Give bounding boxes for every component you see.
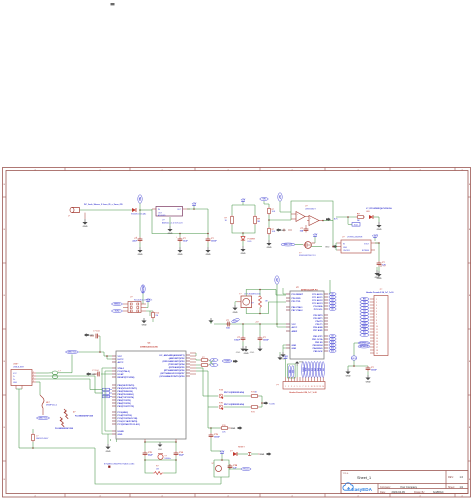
- svg-text:A4: A4: [331, 305, 333, 308]
- svg-text:22pF: 22pF: [179, 455, 184, 457]
- svg-text:TxLED: TxLED: [269, 403, 276, 405]
- svg-text:Sheet:: Sheet:: [448, 486, 455, 489]
- svg-text:GND: GND: [233, 312, 238, 314]
- svg-text:1M: 1M: [155, 315, 158, 317]
- svg-text:P?: P?: [277, 385, 280, 387]
- svg-text:5: 5: [130, 311, 131, 313]
- svg-text:A0: A0: [308, 367, 311, 371]
- svg-text:1: 1: [376, 299, 377, 301]
- svg-text:J?: J?: [68, 216, 71, 218]
- svg-text:ATMEGA328P-PU: ATMEGA328P-PU: [301, 289, 318, 292]
- svg-text:A?5: A?5: [334, 218, 338, 221]
- svg-text:PB2 SS: PB2 SS: [315, 342, 323, 344]
- svg-text:GND: GND: [366, 382, 371, 384]
- svg-text:A1: A1: [331, 296, 333, 299]
- svg-text:PC0(XTAL2): PC0(XTAL2): [118, 370, 130, 373]
- svg-text:LP2985-33DBVR: LP2985-33DBVR: [347, 236, 363, 238]
- svg-text:100nF: 100nF: [211, 241, 218, 243]
- svg-text:+5V: +5V: [146, 299, 151, 302]
- svg-text:(RTS/AIN5/INT6)PD6: (RTS/AIN5/INT6)PD6: [164, 369, 185, 372]
- svg-text:R?A: R?A: [219, 389, 224, 392]
- svg-text:VCC: VCC: [118, 356, 123, 358]
- svg-text:USB-B-SMT: USB-B-SMT: [13, 367, 25, 369]
- svg-text:ASTNEX-D: ASTNEX-D: [360, 345, 369, 348]
- svg-text:DC_Jack_Sleeve_2.1mm_ID_x_5mm_: DC_Jack_Sleeve_2.1mm_ID_x_5mm_OD: [84, 204, 123, 206]
- svg-text:14: 14: [376, 338, 378, 340]
- svg-text:UGND: UGND: [104, 396, 110, 398]
- svg-text:C?: C?: [226, 320, 229, 322]
- svg-text:1.0: 1.0: [460, 475, 464, 479]
- svg-text:PLUSB5BD5NF1508: PLUSB5BD5NF1508: [75, 415, 93, 417]
- svg-text:19: 19: [376, 353, 378, 355]
- svg-text:C? 104: C? 104: [92, 370, 99, 372]
- svg-text:MSMF050-2: MSMF050-2: [46, 405, 58, 407]
- svg-text:+: +: [136, 236, 138, 238]
- svg-text:+5V: +5V: [255, 321, 259, 323]
- svg-text:AVCC: AVCC: [118, 361, 124, 364]
- svg-text:GND: GND: [118, 434, 123, 436]
- svg-text:UCAP: UCAP: [118, 373, 125, 376]
- svg-text:5: 5: [297, 386, 298, 388]
- svg-text:PB1 OC1A: PB1 OC1A: [312, 338, 323, 341]
- svg-text:16MHz: 16MHz: [164, 458, 170, 460]
- svg-text:PB4 MISO: PB4 MISO: [313, 347, 323, 350]
- svg-text:12: 12: [376, 332, 378, 334]
- svg-text:PD1 TXD: PD1 TXD: [292, 301, 301, 303]
- svg-text:3V3: 3V3: [293, 369, 295, 373]
- svg-text:PD3 INT1: PD3 INT1: [313, 318, 323, 320]
- svg-text:(XCK/AIN4/PCINT12)PD0: (XCK/AIN4/PCINT12)PD0: [160, 375, 186, 378]
- svg-text:VIN: VIN: [140, 197, 142, 201]
- svg-text:18: 18: [376, 350, 378, 352]
- svg-text:GND: GND: [231, 428, 236, 430]
- svg-text:2: 2: [33, 375, 34, 377]
- svg-text:6: 6: [138, 311, 139, 313]
- svg-text:17: 17: [376, 347, 378, 349]
- svg-text:GND: GND: [83, 226, 88, 228]
- svg-text:ADJ/GND: ADJ/GND: [158, 214, 166, 217]
- svg-text:11: 11: [376, 329, 378, 331]
- svg-text:1: 1: [130, 304, 131, 306]
- svg-text:PD2 INT0: PD2 INT0: [313, 315, 323, 317]
- svg-text:GND: GND: [375, 277, 380, 279]
- svg-text:FDN340P/SSOT-3: FDN340P/SSOT-3: [299, 255, 316, 257]
- svg-text:5: 5: [376, 311, 377, 313]
- svg-text:104: 104: [300, 230, 304, 233]
- svg-text:PC3 ADC3: PC3 ADC3: [312, 302, 323, 305]
- svg-text:GND: GND: [267, 247, 272, 249]
- svg-text:GND: GND: [292, 348, 297, 350]
- svg-text:PC7(INT4/ICP1/CLKO): PC7(INT4/ICP1/CLKO): [118, 423, 141, 426]
- svg-text:D4: D4: [363, 310, 365, 313]
- svg-text:1uF: 1uF: [233, 468, 237, 470]
- svg-text:6: 6: [300, 386, 301, 388]
- svg-text:PC6(OC1A/PCINT8): PC6(OC1A/PCINT8): [118, 420, 138, 423]
- svg-text:4: 4: [138, 307, 139, 309]
- svg-text:GND: GND: [250, 352, 255, 354]
- svg-text:1M: 1M: [156, 468, 159, 470]
- svg-text:RN? 1K(RESDER-4D4): RN? 1K(RESDER-4D4): [224, 403, 244, 406]
- svg-text:1/1: 1/1: [460, 485, 464, 489]
- svg-text:RESET: RESET: [238, 447, 245, 449]
- svg-text:UMOF: UMOF: [352, 358, 357, 360]
- svg-text:D+: D+: [13, 379, 15, 381]
- svg-text:16: 16: [376, 344, 378, 346]
- svg-text:1: 1: [33, 372, 34, 374]
- svg-text:D13: D13: [331, 351, 334, 353]
- svg-text:2: 2: [138, 304, 139, 306]
- svg-text:GND: GND: [106, 451, 111, 453]
- svg-text:Header-Female-2.54_1x?_1x10: Header-Female-2.54_1x?_1x10: [366, 291, 393, 294]
- svg-text:GND: GND: [158, 449, 163, 451]
- svg-text:RN? 1K(RESDER-4D4): RN? 1K(RESDER-4D4): [224, 391, 244, 394]
- svg-text:A4: A4: [319, 367, 322, 371]
- svg-text:PD5 T1: PD5 T1: [315, 324, 323, 326]
- svg-text:Z?: Z?: [73, 412, 76, 414]
- svg-text:UGND: UGND: [118, 431, 125, 433]
- svg-text:12: 12: [317, 386, 319, 388]
- svg-text:MOSI2: MOSI2: [143, 285, 145, 293]
- svg-text:R?: R?: [156, 466, 159, 468]
- svg-text:PC4(PCINT10): PC4(PCINT10): [118, 414, 133, 417]
- svg-text:D?: D?: [230, 450, 233, 452]
- svg-text:GND: GND: [236, 352, 241, 354]
- svg-text:EasyEDA: EasyEDA: [352, 487, 373, 492]
- svg-text:2020-04-09: 2020-04-09: [392, 490, 406, 494]
- svg-text:PC5 SCL: PC5 SCL: [314, 309, 324, 311]
- svg-text:R?B: R?B: [219, 403, 224, 405]
- svg-text:PC1 ADC1: PC1 ADC1: [312, 296, 323, 299]
- svg-text:A5: A5: [322, 367, 325, 371]
- svg-text:GND: GND: [178, 254, 183, 256]
- svg-text:WDNKED+L: WDNKED+L: [359, 343, 369, 345]
- svg-text:AMS1117-5.0 SOT-223: AMS1117-5.0 SOT-223: [162, 222, 183, 225]
- svg-text:7: 7: [376, 317, 377, 319]
- svg-text:AREF: AREF: [292, 330, 298, 333]
- svg-text:10: 10: [311, 386, 313, 388]
- svg-text:b/u8RG4: b/u8RG4: [433, 490, 444, 494]
- svg-text:9: 9: [376, 323, 377, 325]
- svg-text:Sheet_1: Sheet_1: [357, 476, 371, 480]
- svg-text:+5V: +5V: [220, 451, 225, 454]
- svg-text:ATMEGA16U2-MU: ATMEGA16U2-MU: [140, 346, 158, 349]
- svg-text:GND: GND: [168, 233, 173, 235]
- svg-text:PC0 ADC0: PC0 ADC0: [312, 293, 323, 296]
- svg-text:GND: GND: [13, 382, 18, 384]
- svg-text:R?4: R?4: [251, 411, 256, 413]
- svg-text:A5: A5: [331, 308, 333, 311]
- svg-text:U?: U?: [342, 236, 345, 238]
- svg-text:13: 13: [376, 335, 378, 337]
- svg-text:PC2(AIN2): PC2(AIN2): [118, 411, 129, 414]
- svg-text:PB0 ICP1: PB0 ICP1: [313, 336, 323, 338]
- svg-text:+5V: +5V: [241, 199, 246, 202]
- svg-text:Date:: Date:: [380, 491, 386, 494]
- svg-text:GND: GND: [377, 229, 382, 231]
- svg-text:PB3 MOSI: PB3 MOSI: [313, 345, 323, 347]
- svg-text:(RXD1/AIN1/INT2)PD3: (RXD1/AIN1/INT2)PD3: [162, 360, 185, 363]
- svg-text:REV:: REV:: [448, 476, 454, 479]
- svg-text:2: 2: [376, 302, 377, 304]
- svg-text:R?: R?: [357, 214, 360, 216]
- svg-text:100nF: 100nF: [234, 340, 241, 342]
- svg-text:B: B: [4, 361, 6, 363]
- svg-text:+5V: +5V: [313, 234, 318, 237]
- svg-text:L?: L?: [59, 370, 62, 372]
- svg-text:PB1(SCLK/PCINT1): PB1(SCLK/PCINT1): [118, 388, 138, 390]
- svg-text:PB2(PDI/MOSI): PB2(PDI/MOSI): [118, 391, 134, 393]
- svg-text:1: 1: [285, 386, 286, 388]
- svg-text:3: 3: [376, 305, 377, 307]
- svg-text:4: 4: [294, 386, 295, 388]
- svg-text:PB3(PDO/MISO): PB3(PDO/MISO): [118, 394, 135, 396]
- svg-text:PD7 AIN1: PD7 AIN1: [313, 329, 323, 332]
- svg-text:8: 8: [305, 386, 306, 388]
- svg-text:A3: A3: [316, 367, 319, 371]
- svg-text:P?: P?: [380, 289, 383, 291]
- svg-text:SCK2: SCK2: [115, 311, 120, 313]
- svg-text:1M: 1M: [265, 301, 268, 303]
- svg-text:3: 3: [130, 307, 131, 309]
- svg-text:AVCC: AVCC: [292, 326, 298, 329]
- svg-text:LMV358IDT: LMV358IDT: [305, 208, 316, 210]
- svg-text:B: B: [4, 184, 6, 186]
- svg-text:SS34/DO-214AC: SS34/DO-214AC: [131, 213, 147, 216]
- svg-text:1K: 1K: [225, 220, 228, 222]
- svg-text:13: 13: [319, 386, 321, 388]
- svg-text:PD4 T0: PD4 T0: [315, 320, 323, 323]
- svg-text:4: 4: [33, 381, 34, 383]
- svg-text:VCC: VCC: [292, 324, 297, 326]
- svg-text:10uF: 10uF: [183, 241, 188, 243]
- svg-text:1K: 1K: [357, 220, 360, 222]
- svg-text:+5V: +5V: [283, 356, 288, 359]
- svg-text:22pF: 22pF: [148, 455, 153, 457]
- svg-text:15: 15: [376, 341, 378, 343]
- svg-text:8: 8: [376, 320, 377, 322]
- svg-text:XTAL1: XTAL1: [118, 367, 125, 370]
- svg-text:1K: 1K: [255, 391, 258, 393]
- svg-text:(INT7/AIN6/UVCON)PD7: (INT7/AIN6/UVCON)PD7: [160, 372, 185, 375]
- svg-text:PB7 XTAL2: PB7 XTAL2: [292, 309, 304, 312]
- svg-text:MISO2: MISO2: [114, 304, 120, 306]
- svg-text:PD0 RXD: PD0 RXD: [292, 298, 302, 300]
- svg-text:2: 2: [288, 386, 289, 388]
- svg-text:(INT5/AIN3)PD5: (INT5/AIN3)PD5: [169, 366, 186, 369]
- svg-text:B: B: [4, 427, 6, 429]
- svg-text:PB5 SCK: PB5 SCK: [313, 351, 323, 353]
- svg-text:A0: A0: [331, 293, 333, 296]
- svg-text:22uF: 22uF: [132, 241, 137, 243]
- svg-text:+3V3: +3V3: [372, 235, 379, 238]
- svg-text:B?5(MISO/JTAGPROTRACE_D5B5: B?5(MISO/JTAGPROTRACE_D5B5: [104, 463, 134, 466]
- svg-text:9: 9: [308, 386, 309, 388]
- svg-text:+5V: +5V: [277, 277, 279, 282]
- svg-text:BYPASS: BYPASS: [362, 249, 370, 252]
- svg-text:A3: A3: [331, 302, 333, 305]
- svg-text:11: 11: [314, 386, 316, 388]
- svg-text:PB4(T1/PCINT4): PB4(T1/PCINT4): [118, 396, 135, 399]
- svg-text:LED: LED: [248, 241, 252, 243]
- svg-text:GND: GND: [260, 454, 265, 456]
- svg-text:PLUSB5BD5NF1508: PLUSB5BD5NF1508: [55, 428, 73, 430]
- svg-text:100nF: 100nF: [214, 437, 221, 439]
- svg-text:GND: GND: [138, 254, 143, 256]
- svg-text:UC_ABOARD(AIN0/INT1): UC_ABOARD(AIN0/INT1): [159, 354, 185, 357]
- svg-text:B: B: [4, 295, 6, 297]
- svg-text:14: 14: [322, 386, 324, 388]
- svg-text:GND: GND: [91, 374, 96, 376]
- svg-text:+: +: [176, 236, 178, 238]
- svg-text:6: 6: [376, 314, 377, 316]
- svg-text:A2: A2: [331, 299, 333, 302]
- svg-text:104: 104: [226, 326, 230, 329]
- svg-text:U5: U5: [148, 343, 152, 345]
- svg-text:Y?: Y?: [239, 293, 242, 295]
- svg-text:Your Company: Your Company: [400, 485, 418, 489]
- svg-text:10K: 10K: [272, 231, 276, 233]
- svg-text:10K: 10K: [222, 432, 226, 434]
- svg-text:USB_VCC: USB_VCC: [284, 244, 293, 246]
- svg-text:USB_VCC: USB_VCC: [39, 418, 48, 420]
- svg-text:A2: A2: [313, 367, 316, 371]
- svg-text:GND: GND: [325, 247, 330, 249]
- svg-text:(AIN1/INT2)PD2: (AIN1/INT2)PD2: [169, 357, 186, 360]
- svg-text:10K: 10K: [272, 211, 276, 213]
- svg-text:PB7(PCINT7/TX): PB7(PCINT7/TX): [118, 406, 135, 408]
- svg-text:GND: GND: [299, 361, 304, 363]
- svg-text:Reset: Reset: [244, 468, 249, 471]
- svg-text:B: B: [4, 229, 6, 231]
- svg-text:GND: GND: [241, 253, 246, 255]
- svg-text:Company:: Company:: [380, 486, 391, 489]
- svg-text:100nF: 100nF: [371, 370, 378, 372]
- svg-text:AREF: AREF: [362, 325, 367, 328]
- svg-text:C?: C?: [383, 265, 386, 267]
- svg-text:PC4 SDA: PC4 SDA: [313, 305, 323, 308]
- svg-text:PB5(PCINT5): PB5(PCINT5): [118, 400, 131, 402]
- svg-text:ON/OFF: ON/OFF: [343, 250, 351, 252]
- svg-text:L?_RYG0Z88DQLPLDW-5A: L?_RYG0Z88DQLPLDW-5A: [366, 207, 392, 210]
- svg-text:A1: A1: [311, 367, 314, 371]
- svg-text:Header-Female-2.54_1x?_1x10: Header-Female-2.54_1x?_1x10: [289, 391, 316, 394]
- svg-text:+5V: +5V: [280, 194, 282, 199]
- svg-text:100nF: 100nF: [263, 340, 270, 342]
- svg-text:+5V: +5V: [192, 203, 197, 206]
- svg-text:GND: GND: [206, 254, 211, 256]
- svg-text:AREF: AREF: [233, 319, 238, 322]
- svg-text:TITLE:: TITLE:: [343, 473, 350, 475]
- svg-text:PD6 AIN0: PD6 AIN0: [313, 326, 323, 329]
- svg-text:U?: U?: [296, 287, 299, 289]
- svg-text:S?: S?: [212, 463, 215, 465]
- svg-text:MF?: MF?: [46, 402, 51, 404]
- svg-text:(TXD1/INT3)PD4: (TXD1/INT3)PD4: [168, 363, 185, 366]
- svg-text:10: 10: [376, 326, 378, 328]
- svg-text:USB_VCC: USB_VCC: [68, 352, 77, 354]
- svg-text:7: 7: [302, 386, 303, 388]
- svg-text:B: B: [4, 479, 6, 481]
- svg-text:PB6 XTAL1: PB6 XTAL1: [292, 306, 304, 309]
- svg-text:UVCC: UVCC: [118, 359, 125, 361]
- svg-text:MH2029-300Y: MH2029-300Y: [36, 438, 49, 440]
- svg-text:USB?: USB?: [13, 364, 19, 366]
- svg-text:Drawn By:: Drawn By:: [414, 491, 425, 494]
- svg-text:VUSB: VUSB: [225, 361, 231, 363]
- svg-text:4: 4: [376, 308, 377, 310]
- svg-text:U?: U?: [305, 205, 308, 207]
- svg-text:+: +: [297, 214, 299, 216]
- svg-text:CSTCE16M0V53-R0: CSTCE16M0V53-R0: [244, 293, 261, 295]
- svg-text:PB0(SS/PCINT0): PB0(SS/PCINT0): [118, 385, 135, 387]
- svg-text:3V3: 3V3: [289, 369, 291, 373]
- svg-text:PC5(PCINT9/OC1B): PC5(PCINT9/OC1B): [118, 418, 138, 420]
- svg-text:LED: LED: [366, 211, 370, 213]
- svg-text:GND: GND: [292, 345, 297, 347]
- svg-text:GND: GND: [343, 247, 348, 249]
- svg-text:D+: D+: [213, 360, 215, 362]
- svg-text:1K: 1K: [257, 221, 260, 223]
- svg-text:RESET(PC1/DW): RESET(PC1/DW): [118, 377, 135, 379]
- svg-text:GND: GND: [244, 353, 249, 355]
- svg-text:PB6(PCINT6): PB6(PCINT6): [118, 403, 131, 405]
- svg-text:3: 3: [33, 378, 34, 380]
- svg-text:U?: U?: [130, 297, 133, 299]
- svg-text:GND: GND: [142, 325, 147, 327]
- svg-text:D8: D8: [363, 335, 365, 337]
- svg-text:PC6 RESET: PC6 RESET: [292, 294, 304, 296]
- svg-text:GND: GND: [346, 376, 351, 378]
- svg-text:R?: R?: [251, 303, 253, 305]
- svg-text:U?: U?: [162, 220, 165, 222]
- svg-text:PC2 ADC2: PC2 ADC2: [312, 299, 323, 302]
- svg-text:+: +: [310, 218, 312, 220]
- svg-text:3: 3: [291, 386, 292, 388]
- svg-text:C? 104: C? 104: [93, 331, 100, 333]
